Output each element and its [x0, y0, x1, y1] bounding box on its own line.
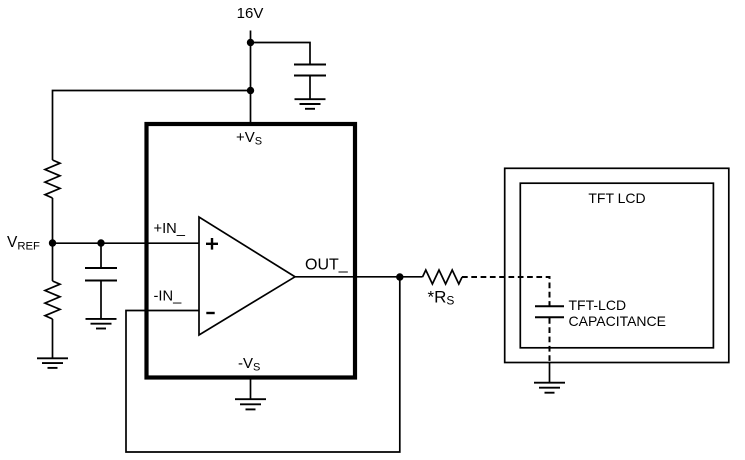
svg-text:+IN_: +IN_: [154, 221, 186, 237]
svg-text:VREF: VREF: [7, 234, 40, 253]
svg-text:TFT-LCD: TFT-LCD: [569, 297, 627, 313]
svg-text:+VS: +VS: [236, 129, 262, 148]
svg-text:-IN_: -IN_: [154, 288, 183, 304]
svg-text:*RS: *RS: [428, 287, 455, 307]
svg-text:CAPACITANCE: CAPACITANCE: [569, 313, 667, 329]
svg-text:OUT_: OUT_: [305, 257, 349, 274]
svg-text:-VS: -VS: [238, 355, 260, 374]
svg-text:TFT LCD: TFT LCD: [588, 190, 645, 206]
svg-text:16V: 16V: [237, 5, 264, 22]
